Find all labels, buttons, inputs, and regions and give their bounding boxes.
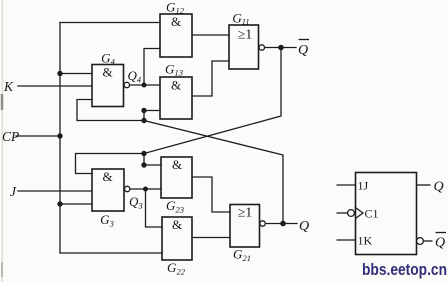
- svg-text:K: K: [3, 79, 14, 94]
- node CP entry junction: [57, 133, 62, 138]
- JK clock triangle: [356, 208, 364, 219]
- node Q feedback junction upper: [141, 108, 146, 113]
- wire G23 output to G21 top input: [192, 177, 230, 212]
- wire K input to G4: [18, 85, 92, 87]
- and gate G22 body: [162, 217, 192, 260]
- svg-text:&: &: [102, 65, 112, 80]
- wire CP vertical bus: [59, 23, 61, 254]
- nor gate G21 body: [230, 205, 260, 248]
- wire G21 output to Q: [265, 223, 297, 225]
- nand gate G4 body: [92, 65, 124, 107]
- wire Q3 output to G23 bottom input: [130, 188, 161, 190]
- node Q output junction: [280, 221, 286, 227]
- JK flip-flop symbol body: [356, 173, 417, 255]
- svg-text:&: &: [171, 14, 181, 29]
- wire Q3 branch to G22 top input: [146, 189, 163, 227]
- wire CP to G22 bottom input: [60, 252, 162, 254]
- wire junction link: [143, 111, 145, 121]
- svg-text:&: &: [172, 217, 182, 232]
- wire JK Q output: [417, 184, 431, 186]
- node Q3 branch junction: [143, 187, 148, 192]
- svg-text:&: &: [172, 157, 182, 172]
- scan border artifact left edge: [1, 0, 3, 282]
- svg-text:CP: CP: [2, 129, 19, 144]
- wire G22 output to G21 bottom input: [192, 237, 230, 239]
- node Q4 branch junction: [142, 83, 147, 88]
- node Qbar feedback junction upper: [141, 151, 146, 156]
- node Qbar output junction: [278, 45, 284, 51]
- wire Qbar feedback hook to G3 top input: [76, 154, 145, 174]
- nand gate G3 body: [92, 169, 124, 211]
- svg-text:≥1: ≥1: [238, 205, 252, 220]
- wire junction link: [143, 154, 145, 166]
- svg-text:≥1: ≥1: [238, 27, 252, 42]
- wire G12 output to G11: [192, 34, 229, 36]
- wire G11 output to Qbar: [264, 47, 296, 49]
- wire JK 1J input: [337, 184, 356, 186]
- svg-text:Q: Q: [435, 236, 445, 251]
- wire Q feedback to G13 bottom input: [144, 110, 160, 112]
- bubble G4 output: [124, 82, 129, 87]
- svg-text:C1: C1: [365, 207, 379, 221]
- wire CP entry: [16, 135, 60, 137]
- wire CP to G3 bottom input: [60, 203, 92, 205]
- svg-text:1J: 1J: [358, 179, 369, 193]
- wire Q4 branch to G12 bottom input: [144, 49, 160, 86]
- wire CP to G12 top input: [60, 22, 160, 24]
- bubble G3 output: [125, 186, 130, 191]
- svg-text:Q: Q: [298, 43, 308, 58]
- wire JK C1 input: [337, 212, 348, 214]
- svg-text:&: &: [171, 78, 181, 93]
- wire J input to G3: [18, 190, 92, 192]
- and gate G12 body: [160, 14, 192, 57]
- wire Qbar feedback to G23 top input: [144, 164, 161, 166]
- node CP-G3 junction: [57, 201, 62, 206]
- wire JK 1K input: [337, 239, 356, 241]
- node Q feedback junction lower: [141, 118, 146, 123]
- wire Q feedback hook to G4 bottom input: [77, 100, 144, 121]
- wire diagonal from Qbar to feedback dots: [144, 48, 281, 154]
- bubble JK Qbar output: [417, 238, 424, 245]
- node CP-G4 junction: [57, 71, 62, 76]
- svg-text:1K: 1K: [358, 234, 373, 248]
- svg-text:&: &: [102, 169, 112, 184]
- wire G13 output to G11: [192, 61, 229, 96]
- and gate G23 body: [161, 157, 192, 198]
- wire diagonal from Q to feedback dots: [144, 121, 283, 224]
- svg-text:Q: Q: [434, 180, 444, 195]
- node Qbar feedback junction lower: [141, 162, 146, 167]
- bubble JK clock input: [348, 210, 355, 217]
- bubble G21 output: [260, 221, 265, 226]
- wire Q4 output to G13 top input: [130, 84, 160, 86]
- svg-text:Q: Q: [299, 219, 309, 234]
- svg-text:bbs.eetop.cn: bbs.eetop.cn: [362, 260, 447, 279]
- wire CP to G4 top input: [60, 73, 92, 75]
- wire JK Qbar output: [423, 240, 432, 242]
- bubble G11 output: [259, 45, 264, 50]
- svg-text:J: J: [10, 184, 17, 199]
- nor gate G11 body: [229, 25, 259, 69]
- and gate G13 body: [160, 77, 192, 119]
